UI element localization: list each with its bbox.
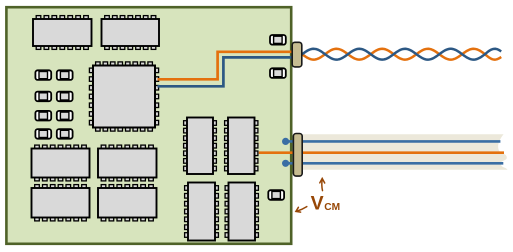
IC U8 — [184, 118, 217, 175]
passive component C1 — [35, 70, 51, 80]
top edge connector J1 — [292, 42, 302, 67]
IC U9 — [225, 118, 258, 175]
passive component C5 — [35, 111, 51, 121]
IC U1 — [33, 16, 92, 50]
passive component C8 — [57, 129, 73, 139]
IC U7 — [98, 185, 157, 221]
flat cable (3-wire ribbon) — [302, 134, 508, 170]
passive component C6 — [57, 111, 73, 121]
PCB board — [6, 7, 291, 244]
passive component C9 — [270, 35, 286, 45]
annotation arrow pointing down-left at board edge — [296, 207, 307, 213]
microcontroller U3 (QFP) — [89, 62, 158, 131]
IC U5 — [98, 145, 157, 181]
wire: blue line 2 in flat cable — [288, 162, 503, 165]
annotation arrow pointing up at flat cable — [320, 178, 325, 190]
passive component C4 — [57, 92, 73, 102]
passive component C10 — [270, 68, 286, 78]
via dot (blue) lower — [282, 160, 289, 167]
wire: twisted pair blue conductor — [302, 49, 501, 60]
IC U4 — [32, 145, 90, 181]
svg-text:V: V — [311, 192, 324, 214]
IC U11 — [225, 183, 258, 241]
IC U10 — [185, 183, 219, 241]
bottom edge connector J2 — [293, 134, 302, 177]
wire: blue signal trace from U3 to top connector — [158, 57, 298, 86]
wire: orange signal trace from U3 to top connector — [158, 52, 298, 80]
IC U6 — [32, 185, 90, 221]
passive component C2 — [57, 70, 73, 80]
IC U2 — [102, 16, 160, 50]
passive component C7 — [35, 129, 51, 139]
via dot (blue) upper — [282, 138, 289, 145]
wire: twisted pair orange conductor — [302, 49, 501, 60]
svg-text:CM: CM — [324, 202, 340, 213]
passive component C3 — [35, 92, 51, 102]
wire: blue line 1 in flat cable — [288, 140, 500, 143]
wire: orange line in flat cable, from U9 through connector — [259, 151, 504, 154]
passive component C11 — [268, 190, 284, 200]
